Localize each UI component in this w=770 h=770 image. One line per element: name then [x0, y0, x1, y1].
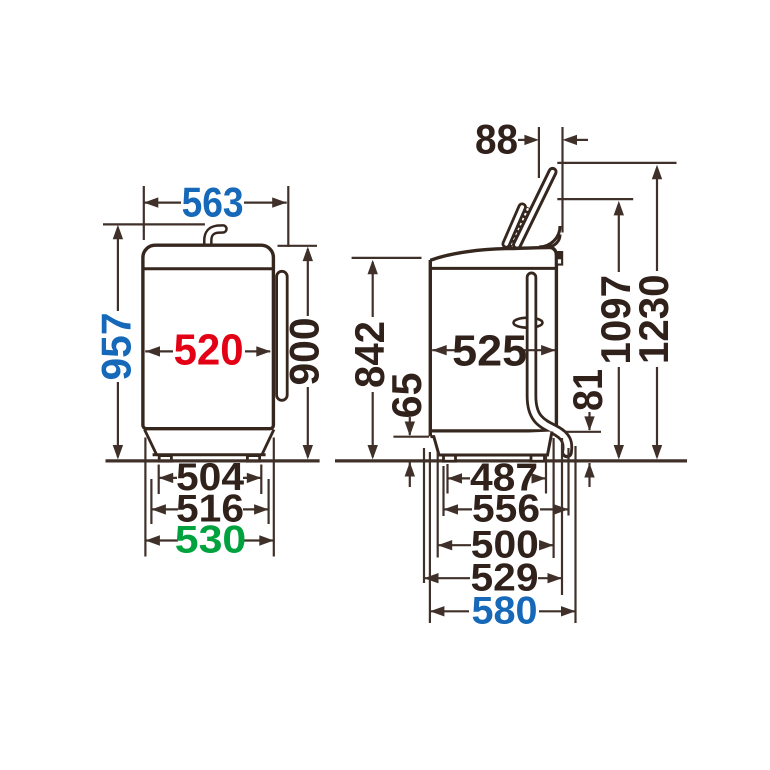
svg-text:520: 520: [174, 325, 244, 374]
svg-text:65: 65: [383, 373, 430, 419]
svg-text:88: 88: [475, 116, 518, 163]
svg-text:1230: 1230: [630, 274, 677, 364]
svg-text:81: 81: [564, 369, 611, 411]
svg-text:563: 563: [182, 178, 244, 225]
svg-text:957: 957: [92, 313, 139, 381]
svg-text:525: 525: [452, 326, 527, 375]
svg-text:900: 900: [280, 318, 327, 386]
svg-text:580: 580: [472, 590, 538, 633]
svg-text:530: 530: [175, 519, 247, 562]
